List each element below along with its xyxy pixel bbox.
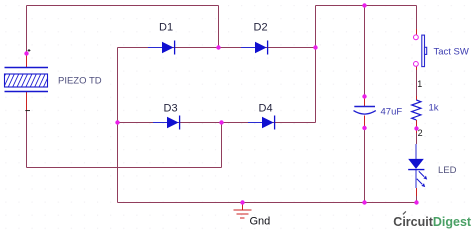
svg-text:PIEZO TD: PIEZO TD bbox=[58, 76, 102, 87]
svg-text:1k: 1k bbox=[429, 103, 439, 114]
svg-text:47uF: 47uF bbox=[381, 107, 403, 118]
svg-text:CircuitDigest: CircuitDigest bbox=[393, 215, 472, 229]
svg-text:2: 2 bbox=[418, 128, 423, 138]
svg-text:D3: D3 bbox=[164, 103, 178, 115]
svg-text:D2: D2 bbox=[254, 22, 268, 34]
svg-text:D4: D4 bbox=[259, 103, 273, 115]
svg-text:Gnd: Gnd bbox=[250, 216, 271, 228]
svg-text:Tact SW: Tact SW bbox=[434, 47, 469, 58]
svg-text:1: 1 bbox=[417, 79, 422, 89]
svg-text:LED: LED bbox=[438, 165, 457, 176]
svg-text:D1: D1 bbox=[159, 22, 173, 34]
